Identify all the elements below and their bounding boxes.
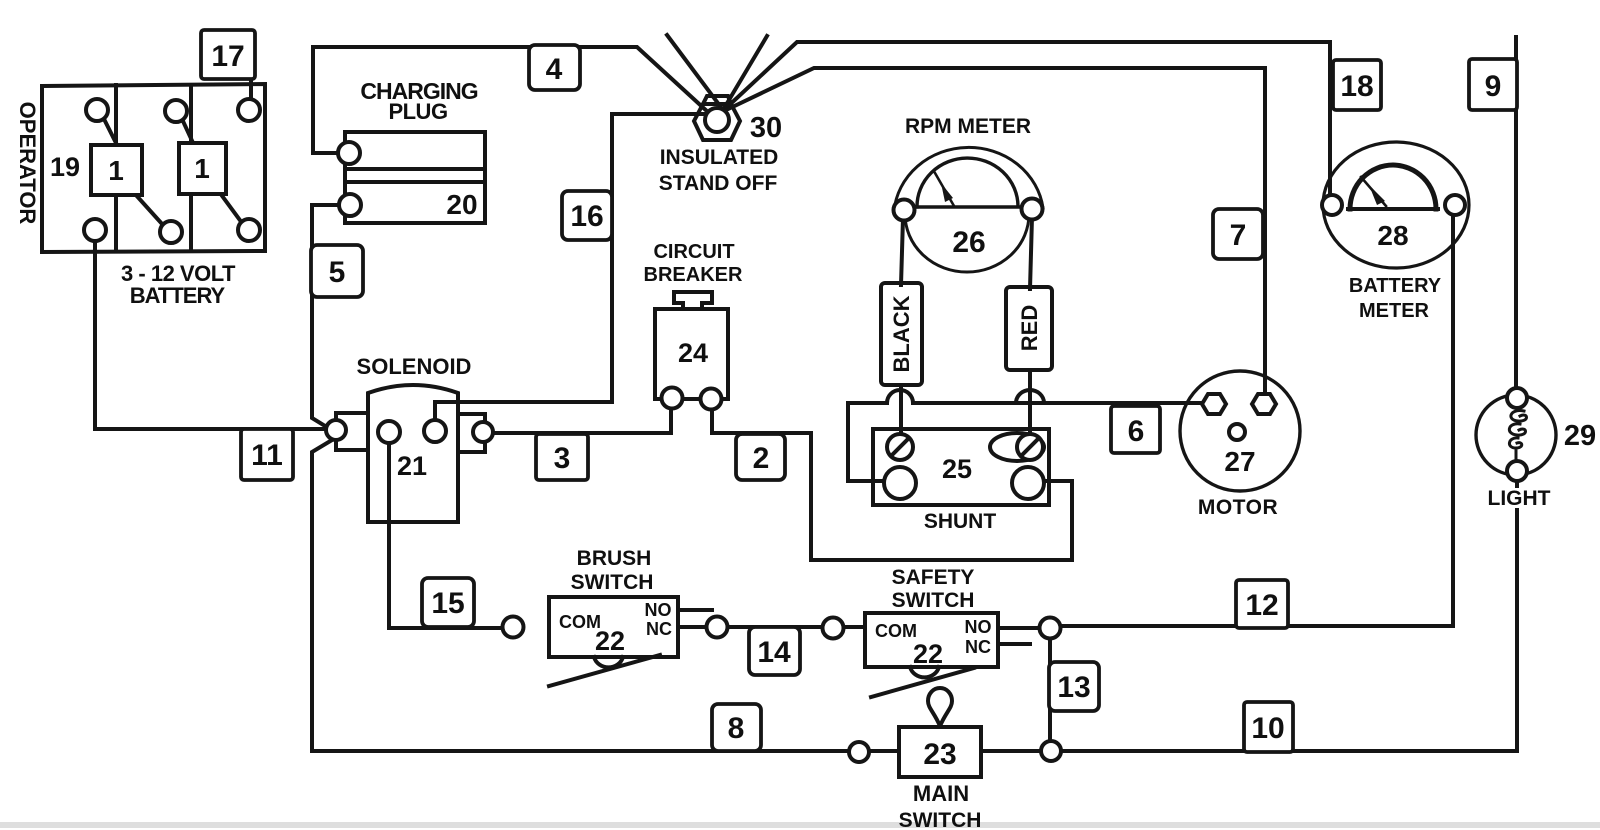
battery meter arc [1350, 165, 1436, 209]
rpm meter right terminal [1022, 199, 1043, 220]
battery meter 28 gauge [1323, 142, 1469, 268]
solenoid left tab [336, 413, 368, 450]
black lead box [881, 283, 922, 385]
svg-text:METER: METER [1359, 300, 1430, 322]
svg-text:23: 23 [923, 738, 956, 771]
tag box 18 [1333, 60, 1381, 110]
charging plug top terminal [338, 142, 360, 164]
tag box 16 [562, 191, 612, 240]
wire 4 charging plug top to stand off [313, 47, 709, 153]
circuit breaker terminal left [662, 388, 683, 409]
shunt screw top-right [1017, 434, 1043, 460]
svg-text:4: 4 [546, 53, 563, 86]
tag box 7 [1213, 209, 1263, 259]
svg-text:NC: NC [646, 619, 672, 639]
battery diagonal link cell2 bottom to terminal [220, 193, 242, 223]
rpm meter inner arc [917, 158, 1018, 207]
motor bus segment between hops [913, 401, 1016, 405]
rpm meter left lead to black box [901, 218, 903, 285]
tag box 14 [749, 627, 800, 675]
brush switch box 22 [549, 597, 678, 657]
shunt terminal bottom-left [884, 467, 916, 499]
svg-text:12: 12 [1245, 589, 1278, 622]
tag box 13 [1049, 662, 1099, 711]
tag box 2 [736, 434, 785, 480]
tag box 15 [422, 578, 474, 627]
svg-text:BLACK: BLACK [889, 295, 914, 372]
label LIGHT [1486, 487, 1552, 510]
shunt screw top-left [887, 434, 913, 460]
stand off inner circle [705, 108, 729, 132]
svg-text:MAIN: MAIN [913, 781, 969, 806]
stand off nut top [703, 96, 731, 104]
svg-text:11: 11 [251, 439, 283, 472]
faint scan streak at bottom [0, 822, 1600, 828]
rpm meter 26 gauge [894, 147, 1043, 272]
battery terminal bottom 3 [238, 219, 260, 241]
svg-text:29: 29 [1564, 420, 1596, 452]
svg-text:STAND OFF: STAND OFF [659, 172, 778, 195]
wire 6 motor bus with hops [848, 390, 1206, 481]
svg-text:CIRCUIT: CIRCUIT [653, 241, 734, 263]
svg-text:SWITCH: SWITCH [892, 589, 975, 612]
svg-text:24: 24 [678, 338, 708, 368]
insulated stand off 30 hexagon [694, 104, 740, 140]
svg-text:13: 13 [1057, 671, 1090, 704]
svg-text:20: 20 [446, 189, 477, 220]
wire 8 solenoid left terminal down to bottom bus [312, 440, 1517, 751]
svg-text:SAFETY: SAFETY [892, 566, 975, 589]
shunt terminal bottom-right [1012, 467, 1044, 499]
battery pack outer box (3-12 volt battery, item 19) [42, 84, 265, 252]
solenoid body 21 [368, 385, 458, 522]
wire 16 solenoid coil up to stand off [435, 114, 707, 424]
svg-text:19: 19 [50, 152, 80, 182]
svg-text:RPM METER: RPM METER [905, 115, 1031, 138]
svg-text:18: 18 [1340, 70, 1373, 103]
solenoid coil terminal 1 [378, 421, 400, 443]
brush switch NC wire to safety switch [678, 625, 865, 629]
svg-text:RED: RED [1017, 305, 1042, 351]
battery terminal bottom 2 [160, 221, 182, 243]
rpm meter bowl [905, 214, 1029, 272]
svg-text:28: 28 [1377, 220, 1408, 251]
svg-text:1: 1 [108, 155, 124, 186]
svg-text:2: 2 [753, 442, 770, 475]
safety switch NO terminal [1040, 618, 1061, 639]
brush switch lever [549, 655, 660, 686]
tag box 5 [311, 245, 363, 297]
tag box 8 [712, 704, 761, 751]
svg-text:NO: NO [645, 600, 672, 620]
svg-text:30: 30 [750, 112, 782, 144]
charging plug inner line 1 [345, 167, 485, 171]
battery meter chord [1348, 207, 1438, 211]
rpm meter chord [913, 205, 1028, 208]
battery divider 2 [189, 85, 193, 251]
battery diagonal link cell2 top [182, 119, 194, 145]
charging plug bottom terminal [339, 194, 361, 216]
tag box 4 [529, 45, 580, 90]
svg-text:NO: NO [965, 617, 992, 637]
circuit breaker cap [674, 292, 712, 309]
circuit breaker body 24 [655, 309, 728, 399]
wire 12 safety switch to battery meter right terminal [1058, 216, 1453, 626]
battery terminal bottom 1 [84, 219, 106, 241]
shunt body 25 [873, 429, 1049, 505]
battery divider 1 [114, 85, 118, 251]
svg-text:10: 10 [1251, 712, 1284, 745]
stand off fan wire B [723, 36, 767, 110]
rpm meter left terminal [894, 200, 915, 221]
svg-text:14: 14 [757, 636, 791, 669]
link terminal between switches [823, 618, 844, 639]
brush switch button arc [594, 657, 623, 667]
red lead box [1006, 287, 1052, 370]
wire 2 circuit breaker to shunt loop [712, 407, 1072, 560]
motor center circle [1229, 424, 1245, 440]
svg-text:COM: COM [875, 621, 917, 641]
svg-text:SWITCH: SWITCH [571, 571, 654, 594]
svg-text:NC: NC [965, 637, 991, 657]
tag box 3 [536, 434, 588, 480]
battery cell 1 [91, 145, 142, 195]
safety switch NC stub [998, 642, 1030, 646]
svg-text:SHUNT: SHUNT [924, 510, 997, 533]
svg-text:BREAKER: BREAKER [644, 264, 743, 286]
battery meter left terminal [1322, 195, 1342, 215]
motor hex terminal right [1252, 394, 1276, 414]
svg-text:8: 8 [728, 712, 745, 745]
svg-text:7: 7 [1230, 219, 1247, 252]
svg-text:INSULATED: INSULATED [660, 146, 779, 169]
wire 7 stand off to motor top terminal [724, 68, 1265, 392]
light bottom terminal [1507, 461, 1527, 481]
motor hex terminal left [1202, 394, 1226, 414]
svg-text:9: 9 [1485, 70, 1502, 103]
svg-text:21: 21 [397, 451, 427, 481]
safety switch plunger teardrop [928, 688, 952, 726]
svg-text:BRUSH: BRUSH [577, 547, 652, 570]
circuit breaker terminal right [701, 389, 722, 410]
svg-text:SWITCH: SWITCH [899, 809, 982, 830]
LAYER1 [42, 84, 1556, 667]
main bus terminal right of main switch [1041, 741, 1061, 761]
safety switch lever [871, 668, 974, 697]
battery meter needle arrowhead [1369, 185, 1385, 205]
LAYER2 wires [95, 35, 1517, 751]
battery terminal top 1 [86, 99, 108, 121]
charging plug inner line 2 [345, 180, 485, 184]
svg-text:BATTERY: BATTERY [1349, 275, 1442, 297]
wire 18 stand off to battery meter left terminal [724, 42, 1330, 192]
svg-text:17: 17 [211, 40, 244, 73]
svg-text:5: 5 [329, 256, 346, 289]
svg-text:22: 22 [913, 639, 943, 669]
solenoid right tab [458, 414, 485, 452]
battery meter outer circle [1323, 142, 1469, 268]
wire 11 battery output to solenoid [95, 238, 330, 429]
tag box 6 [1111, 406, 1160, 453]
svg-text:OPERATOR: OPERATOR [15, 102, 40, 225]
svg-text:SOLENOID: SOLENOID [357, 354, 472, 379]
tag box 10 [1244, 702, 1293, 752]
main bus terminal left of main switch [849, 742, 869, 762]
brush switch NO stub [678, 608, 712, 612]
svg-text:16: 16 [570, 200, 603, 233]
battery cell 2 [179, 143, 226, 194]
hop arc at red wire crossing [1016, 390, 1044, 403]
motor 27 circle [1180, 371, 1300, 491]
tag box 12 [1236, 580, 1288, 628]
wire 9 to light top [1514, 37, 1518, 390]
brush switch NC terminal [707, 617, 728, 638]
wire from light bottom to bus [1515, 479, 1519, 751]
brush switch left terminal [503, 617, 524, 638]
safety switch NO wire [998, 626, 1044, 630]
solenoid left terminal [326, 420, 346, 440]
rpm meter needle [935, 173, 954, 206]
wire 3 solenoid to circuit breaker [491, 407, 671, 433]
solenoid right terminal [473, 422, 493, 442]
svg-text:22: 22 [595, 626, 625, 656]
battery terminal top 3 [238, 99, 260, 121]
wire 5 charging plug bottom down to solenoid left terminal [312, 205, 341, 429]
battery terminal top 2 [165, 100, 187, 122]
svg-text:6: 6 [1128, 415, 1145, 448]
svg-text:BATTERY: BATTERY [130, 283, 226, 308]
wire 15 solenoid coil down to brush switch [389, 441, 505, 628]
black wire into shunt screw [899, 385, 903, 438]
light filament coil [1509, 411, 1526, 458]
svg-text:MOTOR: MOTOR [1198, 496, 1278, 519]
svg-text:25: 25 [942, 454, 972, 484]
svg-text:26: 26 [952, 226, 985, 259]
tag box 11 [241, 429, 293, 480]
light 29 circle [1476, 395, 1556, 475]
rpm meter right lead to red box [1030, 217, 1032, 289]
red wire into shunt screw [1028, 370, 1032, 438]
tag box 9 [1469, 59, 1517, 110]
solenoid coil terminal 2 [424, 420, 446, 442]
wire 17 tag to battery top-right terminal [249, 79, 253, 105]
battery diagonal link cell1 bottom to terminal [135, 194, 163, 225]
wire 13 safety switch to main bus [1048, 638, 1052, 744]
charging plug body 20 [345, 132, 485, 223]
svg-text:15: 15 [431, 587, 464, 620]
safety switch button arc [910, 667, 939, 677]
svg-text:1: 1 [194, 153, 210, 184]
svg-text:LIGHT: LIGHT [1488, 487, 1551, 510]
rpm meter needle arrowhead [941, 183, 953, 202]
safety switch box 22 [865, 613, 998, 667]
main switch box 23 [899, 727, 981, 777]
battery diagonal link cell1 top [103, 117, 118, 147]
battery meter right terminal [1445, 195, 1465, 215]
battery meter needle [1361, 177, 1386, 206]
tag box 17 [201, 30, 255, 79]
shunt oval top-right [990, 433, 1044, 461]
svg-text:PLUG: PLUG [388, 99, 447, 124]
rpm meter outer arc [894, 147, 1043, 211]
svg-text:27: 27 [1224, 446, 1255, 477]
svg-text:3: 3 [554, 442, 571, 475]
stand off fan wire A [667, 35, 723, 110]
light top terminal [1507, 388, 1527, 408]
